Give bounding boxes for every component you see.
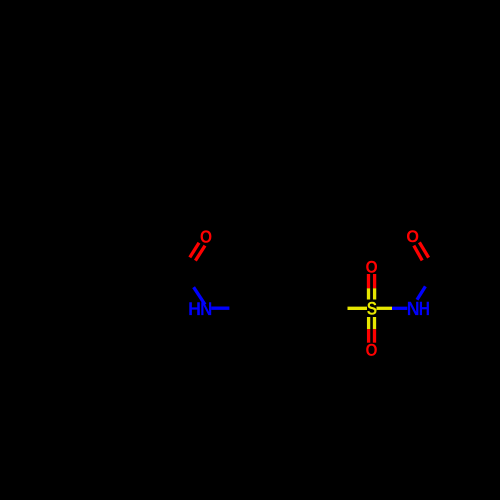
node S sulfonyl — [367, 302, 376, 315]
node NH sulfonamide, letter N — [408, 302, 419, 315]
wire S=O bottom double bond line 2 (red half) — [373, 329, 376, 343]
wire S=O bottom double bond line 2 (yellow half) — [373, 317, 376, 329]
wire C=O double bond left (red half, line 2) — [195, 246, 205, 261]
wire S=O top double bond line 1 (yellow half) — [367, 288, 370, 299]
wire C=O double bond right (red half, line 1) — [414, 246, 422, 261]
wire N-C(ring) bond (blue half) — [211, 307, 229, 310]
wire C=O double bond left (red half, line 1) — [190, 243, 199, 258]
wire N-C bond right (blue half) — [417, 286, 425, 299]
wire C(ring)-S bond (yellow half) — [348, 307, 368, 310]
node O sulfonyl top — [366, 261, 377, 273]
wire S=O bottom double bond line 1 (red half) — [367, 329, 370, 343]
wire S=O top double bond line 1 (red half) — [367, 274, 370, 288]
wire S-N bond (yellow half) — [377, 307, 393, 310]
wire S=O top double bond line 2 (red half) — [373, 274, 376, 288]
wire S=O bottom double bond line 1 (yellow half) — [367, 317, 370, 329]
wire S-N bond (blue half) — [392, 307, 407, 310]
node NH sulfonamide, letter H — [420, 302, 429, 315]
node O carbonyl left — [201, 230, 212, 242]
wire S=O top double bond line 2 (yellow half) — [373, 288, 376, 299]
wire C-N bond left (blue half) — [194, 287, 205, 304]
node O sulfonyl bottom — [366, 344, 377, 356]
node O carbonyl right — [407, 230, 418, 242]
node HN amide left, letter H — [189, 302, 200, 315]
wire C=O double bond right (red half, line 2) — [419, 242, 428, 257]
node HN amide left, letter N — [201, 302, 211, 315]
